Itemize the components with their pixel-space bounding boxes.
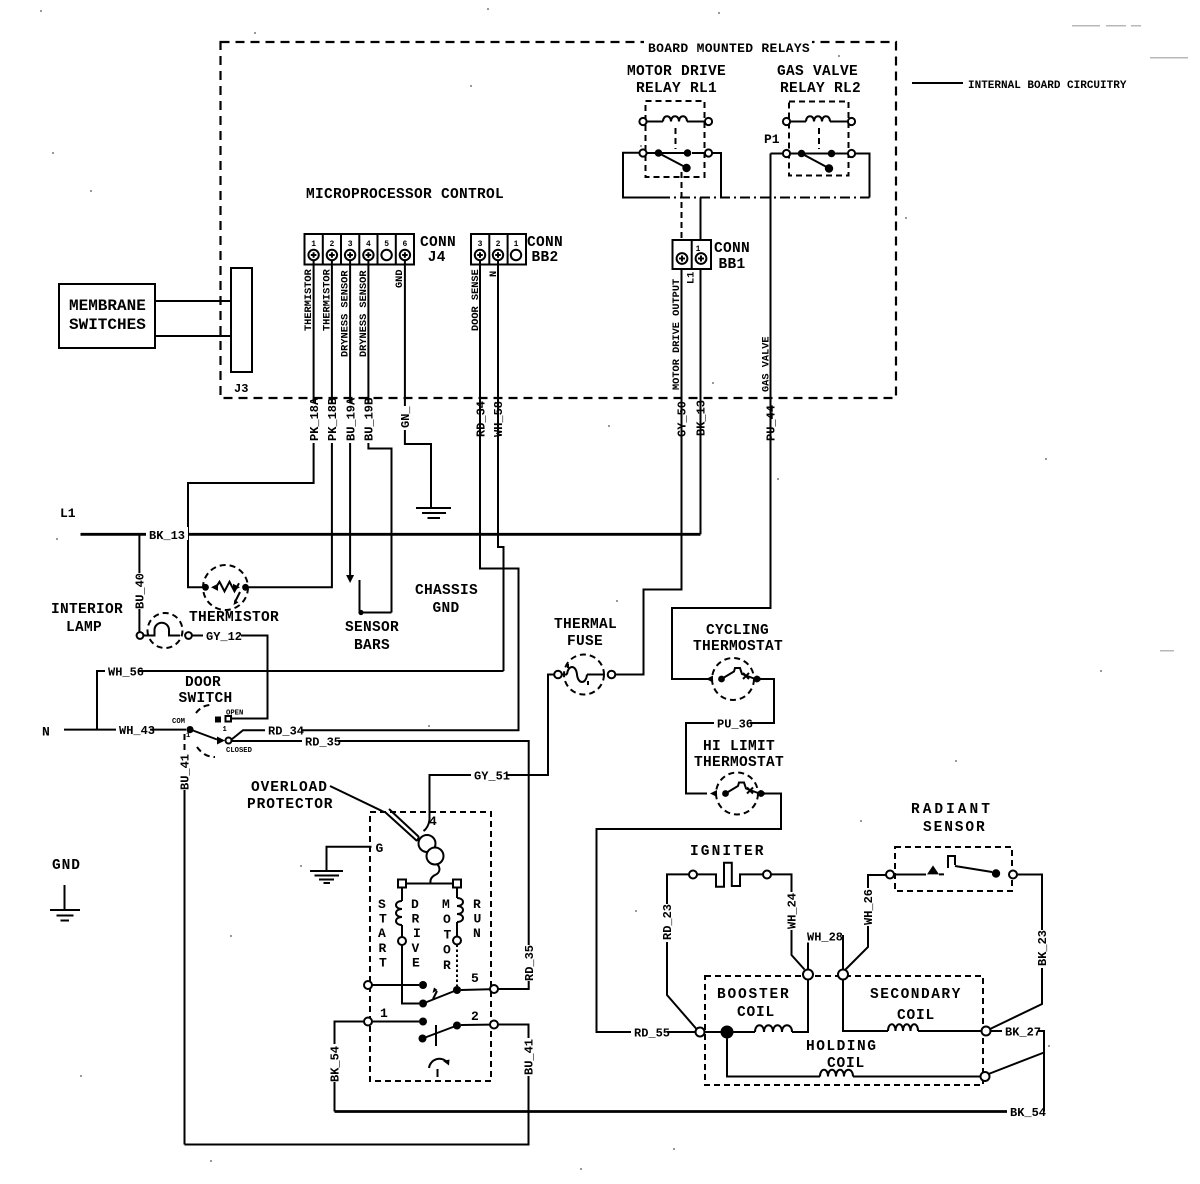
holding coil: [727, 1039, 990, 1082]
motor rail terminal right: [453, 880, 461, 888]
wire BU_41 from door switch N down to bottom rail: [184, 752, 186, 1145]
label SECONDARY COIL: [870, 987, 962, 1024]
svg-text:SENSOR: SENSOR: [345, 620, 399, 636]
motor terminal circle 1: [364, 1018, 372, 1026]
overload protector wedge: [385, 809, 419, 841]
junction circle WH_28 left: [803, 970, 813, 980]
sensor bars element: [358, 580, 391, 615]
wire GN_ from J4-6 to chassis ground: [405, 260, 431, 487]
BB2 pin 2: [493, 240, 503, 260]
connector BB1: [673, 240, 712, 269]
svg-text:BOOSTER: BOOSTER: [717, 987, 791, 1003]
wire label PK_18B: [326, 398, 340, 443]
wire label BK_27: [1002, 1025, 1041, 1040]
wire BK_54 bottom rail: [335, 1110, 1045, 1113]
svg-text:MICROPROCESSOR CONTROL: MICROPROCESSOR CONTROL: [306, 187, 504, 203]
wire label BU_40 vertical: [134, 573, 148, 609]
wire label GY_50 vertical: [676, 401, 690, 439]
relay RL2 dashed body: [789, 102, 849, 176]
svg-text:2: 2: [471, 1009, 479, 1024]
label CONN BB1: [714, 241, 750, 273]
svg-text:RD_35: RD_35: [305, 736, 341, 750]
svg-text:1: 1: [696, 245, 701, 254]
svg-text:INTERNAL BOARD CIRCUITRY: INTERNAL BOARD CIRCUITRY: [968, 80, 1127, 92]
svg-text:BK_13: BK_13: [149, 529, 185, 543]
svg-text:THERMOSTAT: THERMOSTAT: [694, 755, 784, 771]
svg-text:RD_55: RD_55: [634, 1027, 670, 1041]
wire BU_40 from L1 rail to interior lamp: [138, 534, 140, 632]
relay RL2 label: [777, 64, 861, 97]
hi limit thermostat: [710, 773, 767, 815]
svg-text:1: 1: [380, 1006, 388, 1021]
wire label BU_19A: [344, 397, 358, 443]
wire label WH_28: [805, 930, 843, 945]
svg-text:5: 5: [384, 240, 389, 249]
svg-text:RELAY RL1: RELAY RL1: [636, 81, 717, 97]
svg-text:BK_13: BK_13: [695, 400, 709, 436]
svg-text:CONN: CONN: [420, 235, 456, 251]
svg-text:GND: GND: [52, 858, 81, 874]
wire RD_35 from door switch to motor 5: [232, 741, 529, 989]
svg-text:2: 2: [496, 240, 501, 249]
svg-text:DOOR: DOOR: [185, 675, 221, 691]
BB2 pin 1: [511, 240, 521, 260]
svg-text:GY_12: GY_12: [206, 630, 242, 644]
wire RL1 to BB1 pin1 dashed (motor drive output internal): [681, 172, 683, 240]
svg-text:BU_41: BU_41: [179, 754, 193, 790]
svg-text:WH_26: WH_26: [862, 889, 876, 925]
svg-text:BU_19A: BU_19A: [344, 397, 358, 441]
svg-text:RELAY RL2: RELAY RL2: [780, 81, 861, 97]
wire motor top rail: [402, 883, 457, 885]
wire motor1 to BK_54 left rail: [335, 1022, 365, 1112]
igniter circuit terminal RD_55: [696, 1028, 705, 1037]
wire label PK_18A: [308, 397, 322, 443]
membrane switches block: [59, 284, 155, 348]
interior lamp: [137, 613, 192, 648]
svg-text:COIL: COIL: [737, 1005, 775, 1021]
svg-text:BK_54: BK_54: [329, 1046, 343, 1082]
svg-text:BU_40: BU_40: [134, 573, 148, 609]
svg-text:WH_56: WH_56: [108, 666, 144, 680]
wire WH_58 from BB2-2 to WH_56: [498, 260, 504, 671]
wire membrane to J3 lower: [155, 335, 231, 337]
motor switch upper: terminal stub: [372, 984, 419, 986]
svg-text:SENSOR: SENSOR: [923, 820, 987, 836]
relay RL1 switch contacts: [639, 149, 712, 172]
wire label PU_44 vertical: [765, 405, 779, 441]
wire label BU_41 vertical: [179, 752, 193, 790]
svg-text:BK_54: BK_54: [1010, 1106, 1046, 1120]
door switch: [172, 705, 253, 757]
svg-text:PU_36: PU_36: [717, 718, 753, 732]
wire WH_26 to radiant sensor: [846, 875, 887, 970]
svg-text:1: 1: [514, 240, 519, 249]
wire WH_28 bridge: [808, 936, 843, 970]
wire BU_41 from motor2 down to bottom rail: [185, 1025, 529, 1145]
relay RL2 switch contacts: [783, 150, 855, 173]
wire membrane to J3 upper: [155, 300, 231, 302]
ground symbol GND lower-left: [50, 858, 81, 921]
svg-text:COIL: COIL: [897, 1008, 935, 1024]
label THERMAL FUSE: [554, 617, 617, 650]
svg-text:N: N: [42, 725, 50, 740]
svg-text:INTERIOR: INTERIOR: [51, 602, 123, 618]
label CHASSIS GND: [415, 583, 478, 617]
label HOLDING COIL: [806, 1039, 877, 1072]
relay RL1 label: [627, 64, 726, 97]
wire PU_36 cycling to hi-limit: [686, 679, 774, 794]
wire label BK_54 vertical: [329, 1044, 343, 1082]
coils dashed enclosure: [705, 976, 983, 1085]
svg-text:LAMP: LAMP: [66, 620, 102, 636]
legend internal board circuitry line: [912, 82, 963, 84]
label CONN J4: [420, 235, 456, 266]
label HI LIMIT THERMOSTAT: [694, 739, 784, 771]
wire hi-limit to igniter loop left rail RD_55: [597, 794, 782, 1033]
board mounted relays dashed enclosure: [221, 38, 897, 398]
cycling thermostat: [706, 658, 763, 700]
svg-text:RD_23: RD_23: [661, 904, 675, 940]
svg-text:BK_23: BK_23: [1036, 930, 1050, 966]
svg-text:GN_: GN_: [399, 406, 413, 428]
thermistor: [202, 565, 249, 610]
motor switch lower: terminal stub: [372, 1021, 419, 1023]
svg-text:RUN: RUN: [473, 897, 481, 941]
label SENSOR BARS: [345, 620, 399, 654]
svg-text:3: 3: [478, 240, 483, 249]
J4 pin 4: [363, 240, 373, 260]
thermal fuse: [554, 655, 615, 695]
relay RL2 armature link: [818, 128, 820, 149]
svg-text:GAS VALVE: GAS VALVE: [777, 64, 858, 80]
wire PU_44 from RL2 to cycling thermostat: [672, 154, 771, 680]
wire motor 5 to RD_35: [461, 988, 490, 991]
svg-text:1: 1: [186, 732, 191, 740]
svg-text:3: 3: [348, 240, 353, 249]
wire label RD_35: [302, 735, 341, 750]
svg-text:CYCLING: CYCLING: [706, 623, 769, 639]
label OVERLOAD PROTECTOR: [247, 780, 333, 813]
wire label WH_56: [105, 665, 144, 680]
label CONN BB2: [527, 235, 563, 266]
relay RL2 outer frame: [771, 154, 870, 198]
svg-text:COM: COM: [172, 718, 185, 726]
label DOOR SWITCH: [179, 675, 233, 707]
svg-text:2: 2: [329, 240, 334, 249]
relay RL1 coil: [639, 116, 712, 125]
svg-text:MEMBRANE: MEMBRANE: [69, 297, 146, 315]
svg-text:SECONDARY: SECONDARY: [870, 987, 962, 1003]
motor switch upper blade: [419, 986, 461, 1008]
label INTERIOR LAMP: [51, 602, 123, 636]
relay RL1/RL2 shared dash-dot bottom edge: [660, 197, 870, 199]
svg-text:HOLDING: HOLDING: [806, 1039, 877, 1055]
connector J4 body: [305, 234, 415, 265]
wire GY_50 from BB1 pin1 to thermal fuse: [616, 269, 682, 675]
wire label GY_12: [203, 629, 242, 644]
run winding: [453, 888, 463, 987]
wire RD_34 from BB2-3 down: [232, 260, 519, 740]
motor switch lower blade: [419, 1022, 462, 1047]
connector BB2 body: [471, 234, 526, 265]
J4 pin 1: [308, 240, 318, 260]
svg-text:CLOSED: CLOSED: [226, 747, 253, 755]
svg-text:FUSE: FUSE: [567, 634, 603, 650]
motor terminal circle 5: [490, 985, 498, 993]
svg-text:WH_43: WH_43: [119, 724, 155, 738]
svg-text:HI LIMIT: HI LIMIT: [703, 739, 775, 755]
wire BK_23 radiant sensor to secondary coil: [989, 875, 1042, 1030]
wire WH_56: [97, 671, 504, 730]
svg-text:J4: J4: [428, 250, 446, 266]
svg-text:PK_18B: PK_18B: [326, 398, 340, 441]
wire label BK_54: [1007, 1105, 1046, 1120]
wire holding coil to BK_27 junction: [989, 1053, 1045, 1075]
motor rail terminal left: [398, 880, 406, 888]
svg-text:CONN: CONN: [527, 235, 563, 251]
J4 pin 2: [327, 240, 337, 260]
connector J3: [231, 268, 252, 372]
wire label BU_41 vertical right: [523, 1038, 537, 1076]
start winding: [396, 888, 419, 1004]
svg-text:6: 6: [402, 240, 407, 249]
wire label RD_55: [631, 1026, 670, 1041]
motor dashed enclosure: [370, 812, 491, 1081]
BB2 pin 3: [475, 240, 485, 260]
centrifugal switch rotation arrow: [429, 1059, 450, 1077]
sensor bar arrowhead: [346, 575, 354, 583]
chassis ground symbol: [416, 487, 451, 518]
svg-text:P1: P1: [764, 132, 780, 147]
svg-text:THERMOSTAT: THERMOSTAT: [693, 639, 783, 655]
radiant sensor dashed body: [895, 847, 1012, 891]
svg-text:G: G: [376, 841, 384, 856]
wire WH_24 igniter to booster junction: [771, 874, 805, 969]
svg-text:RD_34: RD_34: [268, 725, 304, 739]
wire BK_13 from BB1 pin2 down to L1 rail: [700, 269, 702, 534]
wire RL1 to BB1 pin2 (L1 internal): [700, 198, 702, 241]
wire label WH_24 vertical: [786, 892, 800, 930]
wire label RD_35 vertical: [523, 945, 537, 981]
wire RD_23 igniter left leg: [667, 874, 697, 1029]
wire PK_18B from J4-2 to thermistor: [249, 260, 332, 587]
wire label RD_34 vertical: [475, 401, 489, 439]
wire L1 rail BK_13: [81, 533, 701, 536]
svg-text:RADIANT: RADIANT: [911, 802, 993, 818]
svg-text:MOTOR DRIVE: MOTOR DRIVE: [627, 64, 726, 80]
svg-text:BK_27: BK_27: [1005, 1026, 1041, 1040]
svg-text:WH_28: WH_28: [807, 931, 843, 945]
wire label WH_26 vertical: [862, 888, 876, 926]
svg-text:CONN: CONN: [714, 241, 750, 257]
svg-text:BB1: BB1: [719, 257, 746, 273]
secondary coil: [843, 980, 991, 1036]
svg-text:THERMAL: THERMAL: [554, 617, 617, 633]
wire label BU_19B: [363, 398, 377, 443]
svg-text:1: 1: [223, 726, 228, 734]
wire label GN_: [399, 406, 413, 430]
ground symbol at motor G: [310, 871, 343, 883]
J4 pin 5: [381, 240, 391, 260]
motor switch upper contact dot: [419, 981, 427, 989]
overload protector pointer line: [330, 786, 384, 812]
label BOOSTER COIL: [717, 987, 791, 1021]
wire BU_19A from J4-3 to sensor bar: [349, 260, 351, 576]
svg-text:PU_44: PU_44: [765, 405, 779, 441]
wire label RD_23 vertical: [661, 904, 675, 942]
wire label RD_34: [265, 724, 304, 739]
svg-text:BU_41: BU_41: [523, 1039, 537, 1075]
svg-text:GND: GND: [433, 601, 460, 617]
wire PK_18A from J4-1 to thermistor: [188, 260, 314, 587]
svg-text:4: 4: [366, 240, 371, 249]
svg-text:BU_19B: BU_19B: [363, 398, 377, 441]
svg-text:OVERLOAD: OVERLOAD: [251, 780, 328, 796]
svg-text:THERMISTOR: THERMISTOR: [189, 610, 279, 626]
J4 pin 6: [400, 240, 410, 260]
svg-text:RD_34: RD_34: [475, 401, 489, 437]
svg-text:J3: J3: [234, 382, 248, 396]
wire GY_12 lamp to door switch open contact: [192, 636, 268, 719]
svg-text:WH_24: WH_24: [786, 893, 800, 929]
wire label PU_36: [714, 717, 753, 732]
junction node booster coil: [721, 1026, 734, 1039]
wire G to chassis ground: [327, 847, 372, 870]
motor terminal circle (edge, upper-left): [364, 981, 372, 989]
relay RL1 dashed body: [646, 101, 705, 177]
booster coil: [705, 980, 809, 1033]
relay RL2 coil: [783, 116, 855, 125]
relay RL1 armature link: [675, 128, 677, 149]
radiant sensor element: [886, 856, 1017, 879]
label CYCLING THERMOSTAT: [693, 623, 783, 655]
wire GY_51 fuse to overload protector: [430, 675, 555, 821]
svg-text:BARS: BARS: [354, 638, 390, 654]
svg-text:START: START: [378, 897, 387, 970]
svg-text:5: 5: [471, 971, 479, 986]
igniter element: [689, 863, 771, 887]
svg-text:L1: L1: [686, 272, 698, 284]
svg-text:RD_35: RD_35: [523, 945, 537, 981]
wire label BK_13 on rail: [146, 527, 188, 543]
wire motor 2 to BU_41: [461, 1024, 490, 1026]
junction circle WH_28 right: [838, 970, 848, 980]
svg-text:IGNITER: IGNITER: [690, 844, 766, 860]
svg-text:WH_58: WH_58: [492, 401, 506, 437]
relay RL1 outer frame: [623, 153, 721, 198]
wire BU_19B from J4-4 to sensor bar: [368, 260, 391, 613]
wire label WH_43: [116, 723, 155, 738]
wire label WH_58 vertical: [492, 401, 506, 439]
wire label BK_13 vertical: [695, 400, 709, 438]
svg-text:GY_51: GY_51: [474, 770, 510, 784]
label RADIANT SENSOR: [911, 802, 993, 836]
wire label GY_51: [471, 769, 510, 784]
wire N line WH_43: [64, 729, 186, 731]
svg-text:BB2: BB2: [532, 250, 559, 266]
svg-text:1: 1: [311, 240, 316, 249]
svg-text:SWITCHES: SWITCHES: [69, 316, 146, 334]
svg-text:GY_50: GY_50: [676, 401, 690, 437]
svg-text:OPEN: OPEN: [226, 710, 243, 718]
motor terminal circle 2: [490, 1021, 498, 1029]
svg-text:SWITCH: SWITCH: [179, 691, 233, 707]
svg-text:PROTECTOR: PROTECTOR: [247, 797, 333, 813]
wire label BK_23 vertical: [1036, 930, 1050, 968]
svg-text:L1: L1: [60, 506, 76, 521]
overload protector element: [419, 820, 444, 884]
svg-text:PK_18A: PK_18A: [308, 397, 322, 441]
J4 pin 3: [345, 240, 355, 260]
motor switch lower contact dot: [419, 1018, 427, 1026]
svg-text:BOARD MOUNTED RELAYS: BOARD MOUNTED RELAYS: [648, 41, 810, 56]
wire BK_27 secondary coil to bottom rail: [991, 1031, 1045, 1112]
svg-text:CHASSIS: CHASSIS: [415, 583, 478, 599]
